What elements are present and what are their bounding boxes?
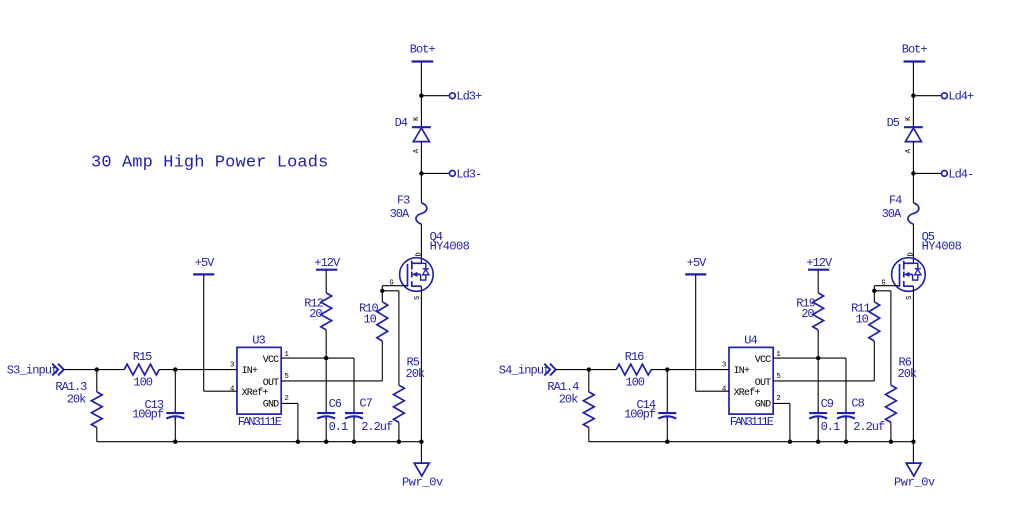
wire OUT pin5 to R10 bbox=[281, 380, 382, 382]
wire C7 to rail bbox=[353, 419, 355, 442]
node Ld3- junction bbox=[419, 171, 423, 175]
svg-text:S3_input: S3_input bbox=[7, 363, 58, 377]
svg-text:G: G bbox=[389, 280, 393, 288]
power flag +5V bbox=[685, 256, 707, 274]
input chevron bbox=[544, 364, 556, 376]
power flag +12V bbox=[806, 256, 833, 270]
wire Q source down to ground rail bbox=[420, 286, 422, 442]
wire rail to ground symbol bbox=[420, 442, 422, 463]
wire Q source down to ground rail bbox=[912, 286, 914, 442]
resistor R5 20k bbox=[394, 355, 425, 422]
wire C8 to rail bbox=[845, 419, 847, 442]
wire Q gate to gate node bbox=[874, 285, 899, 287]
svg-text:30A: 30A bbox=[390, 207, 410, 221]
svg-text:10: 10 bbox=[855, 313, 868, 327]
svg-text:F4: F4 bbox=[889, 193, 902, 207]
svg-text:Pwr_0v: Pwr_0v bbox=[894, 476, 935, 490]
op-amp U3 FAN3111E bbox=[230, 334, 290, 430]
capacitor C14 100pf bbox=[624, 398, 676, 421]
svg-text:S4_input: S4_input bbox=[499, 363, 550, 377]
junction C13 / rail bbox=[173, 440, 177, 444]
wire C14 to rail bbox=[666, 419, 668, 442]
svg-text:20k: 20k bbox=[67, 393, 86, 407]
wire to Ld4- pin bbox=[913, 172, 941, 174]
wire IN+ node to pin3 bbox=[175, 369, 237, 371]
svg-text:30 Amp High Power Loads: 30 Amp High Power Loads bbox=[91, 154, 328, 173]
wire IN+ node to pin3 bbox=[667, 369, 729, 371]
svg-text:10: 10 bbox=[363, 313, 376, 327]
wire RA1.3 to rail bbox=[96, 428, 98, 442]
svg-text:20: 20 bbox=[309, 307, 322, 321]
wire R19 to VCC node bbox=[817, 330, 819, 358]
resistor R12 20 bbox=[304, 293, 331, 330]
svg-text:5: 5 bbox=[284, 373, 289, 381]
wire VCC node to C6 bbox=[325, 358, 327, 410]
wire to Ld3- pin bbox=[421, 172, 449, 174]
svg-text:XRef+: XRef+ bbox=[242, 387, 269, 399]
svg-text:HY4008: HY4008 bbox=[922, 240, 962, 254]
wire tap to fuse bbox=[912, 173, 914, 202]
svg-text:20k: 20k bbox=[559, 393, 578, 407]
wire diode anode to Ld- tap bbox=[912, 142, 914, 174]
wire C13 to rail bbox=[174, 419, 176, 442]
svg-text:Ld3-: Ld3- bbox=[456, 167, 481, 181]
wire +5V to XRef+ pin4 bbox=[695, 274, 697, 391]
svg-text:R15: R15 bbox=[133, 350, 152, 364]
wire R6 to ground rail bbox=[890, 422, 892, 441]
resistor RA1.4 20k bbox=[547, 380, 594, 427]
svg-text:U4: U4 bbox=[744, 334, 757, 348]
node gate junction bbox=[872, 289, 876, 293]
wire to Ld3+ pin bbox=[421, 95, 449, 97]
wire to Ld4+ pin bbox=[913, 95, 941, 97]
wire +5V to XRef+ pin4 bbox=[203, 274, 205, 391]
svg-text:100: 100 bbox=[133, 376, 152, 390]
svg-text:20k: 20k bbox=[898, 367, 917, 381]
svg-text:2.2uf: 2.2uf bbox=[853, 420, 885, 434]
diode D5 bbox=[887, 116, 923, 153]
pin circle Ld3- bbox=[450, 171, 456, 177]
svg-text:Ld4-: Ld4- bbox=[948, 167, 973, 181]
wire tap to fuse bbox=[420, 173, 422, 202]
resistor R16 100 bbox=[616, 350, 651, 390]
svg-text:VCC: VCC bbox=[755, 355, 771, 366]
node gate junction bbox=[380, 289, 384, 293]
junction IN+ node bbox=[665, 367, 669, 371]
svg-text:4: 4 bbox=[230, 385, 235, 393]
wire ground rail bbox=[589, 441, 914, 443]
wire diode anode to Ld- tap bbox=[420, 142, 422, 174]
ground Pwr_0v bbox=[894, 463, 935, 490]
junction VCC / R12 column bbox=[324, 356, 328, 360]
wire Bot+ to Ld+ tap bbox=[912, 62, 914, 96]
wire ground rail bbox=[97, 441, 422, 443]
wire fuse to Q drain bbox=[420, 224, 422, 263]
capacitor C9 0.1 bbox=[809, 397, 840, 434]
junction source / rail bbox=[419, 440, 423, 444]
wire junction to R16 bbox=[589, 369, 616, 371]
fuse F4 30A bbox=[882, 193, 919, 224]
pin circle Ld4+ bbox=[942, 93, 948, 99]
svg-text:2.2uf: 2.2uf bbox=[361, 420, 393, 434]
node Ld3+ junction bbox=[419, 94, 423, 98]
pin circle Ld4- bbox=[942, 171, 948, 177]
wire Q gate to gate node bbox=[382, 285, 407, 287]
wire R12 to VCC node bbox=[325, 330, 327, 358]
wire GND pin2 to rail bbox=[281, 402, 298, 404]
junction R5 / rail bbox=[397, 440, 401, 444]
pin circle Ld3+ bbox=[450, 93, 456, 99]
wire R11 to OUT net bbox=[873, 341, 875, 381]
svg-text:FAN3111E: FAN3111E bbox=[238, 415, 282, 429]
wire R16 to IN+ node bbox=[651, 369, 667, 371]
wire fuse to Q drain bbox=[912, 224, 914, 263]
svg-text:100pf: 100pf bbox=[624, 408, 656, 422]
wire VCC pin1 to C7 branch bbox=[281, 357, 354, 359]
wire tap to diode cathode bbox=[420, 96, 422, 128]
power flag +12V bbox=[314, 256, 341, 270]
junction VCC / R12 column bbox=[816, 356, 820, 360]
svg-text:0.1: 0.1 bbox=[821, 420, 840, 434]
node Ld4+ junction bbox=[911, 94, 915, 98]
svg-text:100: 100 bbox=[625, 376, 644, 390]
svg-text:0.1: 0.1 bbox=[329, 420, 348, 434]
wire GND pin2 to rail bbox=[773, 402, 790, 404]
svg-text:Bot+: Bot+ bbox=[410, 43, 436, 57]
junction GND wire / rail bbox=[788, 440, 792, 444]
transistor Q4 HY4008 MOSFET bbox=[389, 230, 469, 300]
fuse F3 30A bbox=[390, 193, 427, 224]
wire RA1.4 to rail bbox=[588, 428, 590, 442]
svg-text:2: 2 bbox=[776, 395, 781, 403]
svg-text:+12V: +12V bbox=[806, 256, 833, 270]
wire tap to diode cathode bbox=[912, 96, 914, 128]
wire junction to R15 bbox=[97, 369, 124, 371]
svg-text:GND: GND bbox=[755, 400, 771, 411]
svg-text:3: 3 bbox=[722, 361, 727, 369]
capacitor C7 2.2uf bbox=[345, 397, 393, 435]
wire input to RA junction bbox=[64, 369, 97, 371]
resistor R15 100 bbox=[124, 350, 159, 390]
junction GND wire / rail bbox=[296, 440, 300, 444]
svg-text:G: G bbox=[881, 280, 885, 288]
svg-text:HY4008: HY4008 bbox=[430, 240, 470, 254]
wire IN+ node down to C14 bbox=[666, 370, 668, 411]
diode D4 bbox=[395, 116, 431, 153]
svg-text:+5V: +5V bbox=[195, 256, 215, 270]
resistor RA1.3 20k bbox=[55, 380, 102, 427]
resistor R6 20k bbox=[886, 355, 917, 422]
svg-text:C7: C7 bbox=[359, 397, 372, 411]
svg-text:U3: U3 bbox=[252, 334, 265, 348]
junction C14 / rail bbox=[665, 440, 669, 444]
wire IN+ node down to C13 bbox=[174, 370, 176, 411]
junction IN+ node bbox=[173, 367, 177, 371]
wire OUT pin5 to R10 bbox=[773, 380, 874, 382]
wire VCC node to C9 bbox=[817, 358, 819, 410]
power flag Bot+ bbox=[410, 43, 436, 62]
wire +12V to R12 bbox=[325, 270, 327, 293]
transistor Q5 HY4008 MOSFET bbox=[881, 230, 961, 300]
svg-text:Ld3+: Ld3+ bbox=[456, 90, 482, 104]
resistor R19 20 bbox=[796, 293, 823, 330]
svg-text:C6: C6 bbox=[329, 397, 342, 411]
svg-text:20: 20 bbox=[801, 307, 814, 321]
svg-text:R16: R16 bbox=[625, 350, 644, 364]
junction C8 / rail bbox=[844, 440, 848, 444]
capacitor C13 100pf bbox=[132, 398, 184, 421]
wire junction down to RA1.4 bbox=[588, 370, 590, 392]
wire gate node down to R10 bbox=[381, 291, 383, 302]
node Ld4- junction bbox=[911, 171, 915, 175]
svg-text:Bot+: Bot+ bbox=[902, 43, 928, 57]
wire C9 to rail bbox=[817, 419, 819, 442]
svg-text:+12V: +12V bbox=[314, 256, 341, 270]
wire Bot+ to Ld+ tap bbox=[420, 62, 422, 96]
svg-text:XRef+: XRef+ bbox=[734, 387, 761, 399]
svg-text:F3: F3 bbox=[397, 193, 410, 207]
junction C7 / rail bbox=[352, 440, 356, 444]
svg-text:D4: D4 bbox=[395, 116, 408, 130]
wire gate node to R5 bbox=[382, 290, 399, 292]
wire gate node down to R11 bbox=[873, 291, 875, 302]
svg-text:D: D bbox=[416, 252, 424, 256]
power flag +5V bbox=[193, 256, 215, 274]
wire R15 to IN+ node bbox=[159, 369, 175, 371]
svg-text:FAN3111E: FAN3111E bbox=[730, 415, 774, 429]
wire R10 to OUT net bbox=[381, 341, 383, 381]
wire input to RA junction bbox=[556, 369, 589, 371]
wire R5 to ground rail bbox=[398, 422, 400, 441]
svg-text:30A: 30A bbox=[882, 207, 902, 221]
svg-text:C9: C9 bbox=[821, 397, 834, 411]
svg-text:D5: D5 bbox=[887, 116, 900, 130]
svg-text:100pf: 100pf bbox=[132, 408, 164, 422]
svg-text:20k: 20k bbox=[406, 367, 425, 381]
op-amp U4 FAN3111E bbox=[722, 334, 782, 430]
power flag Bot+ bbox=[902, 43, 928, 62]
svg-text:IN+: IN+ bbox=[734, 366, 750, 377]
wire gate node to R6 bbox=[874, 290, 891, 292]
wire VCC pin1 to C7 branch bbox=[773, 357, 846, 359]
svg-text:D: D bbox=[908, 252, 916, 256]
svg-text:C8: C8 bbox=[851, 397, 864, 411]
resistor R10 10 bbox=[359, 301, 388, 341]
resistor R11 10 bbox=[851, 301, 880, 341]
svg-text:Ld4+: Ld4+ bbox=[948, 90, 974, 104]
svg-text:Pwr_0v: Pwr_0v bbox=[402, 476, 443, 490]
junction C9 / rail bbox=[816, 440, 820, 444]
wire +12V to R19 bbox=[817, 270, 819, 293]
svg-text:5: 5 bbox=[776, 373, 781, 381]
wire C6 to rail bbox=[325, 419, 327, 442]
svg-text:2: 2 bbox=[284, 395, 289, 403]
junction input / RA bbox=[587, 367, 591, 371]
svg-text:VCC: VCC bbox=[263, 355, 279, 366]
junction source / rail bbox=[911, 440, 915, 444]
junction R6 / rail bbox=[889, 440, 893, 444]
capacitor C6 0.1 bbox=[317, 397, 348, 434]
svg-text:IN+: IN+ bbox=[242, 366, 258, 377]
svg-text:4: 4 bbox=[722, 385, 727, 393]
wire junction down to RA1.3 bbox=[96, 370, 98, 392]
svg-text:GND: GND bbox=[263, 400, 279, 411]
svg-text:3: 3 bbox=[230, 361, 235, 369]
svg-text:+5V: +5V bbox=[687, 256, 707, 270]
input chevron bbox=[52, 364, 64, 376]
wire rail to ground symbol bbox=[912, 442, 914, 463]
junction C6 / rail bbox=[324, 440, 328, 444]
ground Pwr_0v bbox=[402, 463, 443, 490]
capacitor C8 2.2uf bbox=[837, 397, 885, 435]
junction input / RA bbox=[95, 367, 99, 371]
